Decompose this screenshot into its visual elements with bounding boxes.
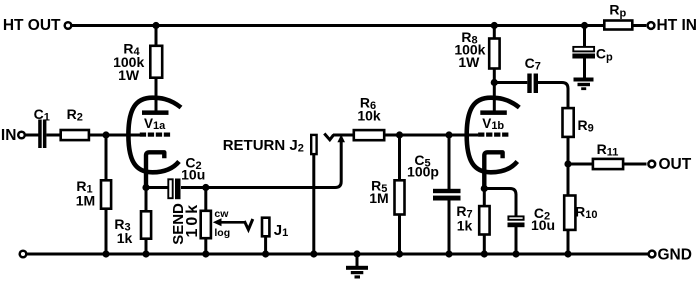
wire Cp to ground symbol [583, 58, 586, 78]
svg-text:GND: GND [658, 246, 692, 263]
node C5 ground [445, 250, 452, 257]
node V1b cathode junction [481, 185, 488, 192]
svg-text:1M: 1M [369, 190, 388, 206]
jack J2 tip contact [324, 134, 333, 140]
V1a grid dashes [140, 133, 170, 137]
node J2 ground [310, 250, 317, 257]
node R8 bottom [491, 79, 498, 86]
svg-text:10u: 10u [181, 167, 205, 183]
V1a anode plate [142, 110, 169, 115]
wire R9 to out node [567, 137, 570, 165]
svg-text:10k: 10k [184, 202, 201, 238]
svg-text:log: log [214, 227, 230, 239]
svg-text:RETURN J2: RETURN J2 [223, 137, 304, 155]
wire node to R11 [568, 163, 593, 166]
resistor R4 [113, 40, 162, 83]
resistor R5 [369, 178, 404, 215]
terminal GND [649, 246, 692, 263]
triode V1a envelope [128, 98, 181, 173]
node R1 ground [102, 250, 109, 257]
node R4 top [152, 22, 159, 29]
svg-text:100p: 100p [407, 163, 439, 179]
resistor Rp [604, 1, 632, 29]
capacitor C5 [407, 152, 460, 201]
node out [564, 160, 571, 167]
node send junction [202, 184, 209, 191]
wire R7 to ground rail [483, 234, 486, 254]
wire IN to C1 [26, 134, 39, 137]
wire C5 to ground rail [448, 200, 451, 254]
node SEND ground [202, 250, 209, 257]
wire C2 to J2 switch with bend up [181, 142, 341, 188]
capacitor Cp [572, 46, 613, 64]
wire junction to C5 [448, 135, 451, 189]
wire junction to R5 [398, 135, 401, 180]
svg-text:1W: 1W [458, 54, 480, 70]
capacitor C7 [525, 55, 541, 93]
potentiometer SEND 10k [170, 202, 230, 245]
capacitor C1 [34, 106, 50, 148]
resistor R10 [564, 196, 597, 230]
jack J1 [262, 218, 288, 239]
wire Rp to HT IN terminal [632, 24, 646, 27]
wire J2 contact to R6 [333, 134, 354, 137]
node R7 ground [481, 250, 488, 257]
resistor R2 [61, 106, 89, 140]
resistor R3 [114, 211, 151, 246]
svg-text:10k: 10k [357, 108, 381, 124]
wire SEND pot to ground rail [204, 238, 207, 254]
svg-text:1k: 1k [117, 230, 133, 246]
wire rail to R8 [493, 26, 496, 40]
node C5 junction [445, 131, 452, 138]
jack J2 [311, 135, 316, 154]
triode V1b envelope [467, 98, 520, 173]
wire junction to R1 [105, 135, 108, 180]
node R5 junction [396, 131, 403, 138]
node R3 ground [142, 250, 149, 257]
jack J1 tip contact [244, 219, 253, 230]
wire R5 to ground rail [398, 214, 401, 254]
V1b anode plate [480, 110, 507, 115]
capacitor C2 (left) [168, 154, 205, 199]
SEND wiper arrow [213, 218, 245, 226]
wire cathode to R3 [145, 188, 148, 212]
wire cathode to R7 [483, 189, 486, 207]
svg-text:HT IN: HT IN [657, 17, 697, 34]
resistor R8 [454, 29, 499, 70]
V1b grid dashes [478, 133, 508, 137]
wire rail to Cp [583, 26, 586, 47]
svg-text:HT OUT: HT OUT [3, 17, 61, 34]
node R8 top [491, 22, 498, 29]
node Cp top [581, 22, 588, 29]
wire cathode to C2 right with bend [484, 189, 516, 217]
svg-text:10u: 10u [531, 217, 555, 233]
wire bottom ground rail [27, 253, 649, 256]
wire ground stub [356, 254, 359, 266]
ground symbol center [346, 266, 368, 279]
node ground stub [353, 250, 360, 257]
resistor R11 [593, 141, 623, 169]
node R10 ground [564, 250, 571, 257]
svg-text:1M: 1M [76, 193, 95, 209]
wire R4 to V1a anode [155, 78, 158, 111]
wire J1 to ground rail [264, 237, 267, 254]
wire J2 to ground rail [312, 155, 315, 254]
node V1a cathode junction [142, 184, 149, 191]
wire node to C7 [494, 81, 527, 84]
wire out node to R10 [567, 164, 570, 196]
svg-text:OUT: OUT [659, 156, 692, 173]
wire R10 to ground rail [567, 229, 570, 254]
resistor R9 [563, 108, 594, 137]
wire R6 to V1b grid [384, 134, 478, 137]
svg-text:cw: cw [214, 208, 229, 220]
node J1 ground [262, 250, 269, 257]
wire C2 to ground rail [515, 227, 518, 254]
wire junction to SEND pot [204, 188, 207, 212]
wire R8 to anode node [493, 68, 496, 83]
ground symbol at Cp [574, 78, 594, 91]
node C2 ground [512, 250, 519, 257]
terminal HT IN [648, 17, 697, 34]
svg-text:1k: 1k [457, 218, 473, 234]
svg-text:1W: 1W [118, 67, 140, 83]
wire R1 to ground rail [105, 209, 108, 254]
V1b cathode [484, 152, 502, 188]
wire R11 to OUT terminal [623, 163, 647, 166]
wire R2 to V1a grid [89, 134, 140, 137]
wire cathode to C2 [146, 186, 168, 189]
svg-text:IN: IN [1, 127, 17, 144]
arrow to J2 contact [337, 135, 345, 143]
node grid junction [102, 131, 109, 138]
resistor R6 [354, 95, 384, 141]
wire node to V1b anode [493, 83, 496, 112]
resistor R1 [76, 178, 111, 209]
terminal IN [1, 127, 25, 144]
wire R3 to ground rail [145, 239, 148, 255]
terminal bottom-left [20, 251, 27, 258]
wire top HT rail [71, 24, 604, 27]
wire C1 to R2 [46, 134, 60, 137]
capacitor C2 (right) [508, 205, 556, 233]
wire rail to R4 [155, 26, 158, 46]
terminal HT OUT [3, 17, 71, 34]
wire C7 to R9 with bend down [538, 83, 568, 109]
resistor R7 [456, 203, 489, 235]
V1a cathode [146, 152, 164, 187]
node R5 ground [396, 250, 403, 257]
terminal OUT [648, 156, 691, 173]
